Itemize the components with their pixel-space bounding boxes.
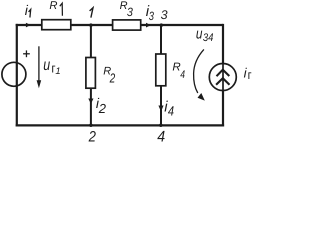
svg-text:u: u <box>43 57 50 74</box>
node 4 dot <box>159 123 163 127</box>
resistor R1 <box>42 20 71 30</box>
voltage arrow u34 curved <box>194 49 205 100</box>
svg-text:2: 2 <box>109 71 116 86</box>
wire left <box>16 24 18 127</box>
svg-text:R: R <box>49 0 57 12</box>
wire top <box>16 24 223 26</box>
svg-text:2: 2 <box>88 129 97 146</box>
node 1 dot <box>89 23 93 27</box>
label node 1 <box>90 8 93 18</box>
svg-text:4: 4 <box>180 69 185 81</box>
current arrow i2 <box>88 99 93 104</box>
node 3 dot <box>160 23 164 27</box>
wire branch R2 <box>90 25 92 125</box>
svg-text:4: 4 <box>168 104 174 119</box>
svg-text:3: 3 <box>161 8 168 22</box>
wire right <box>222 24 224 127</box>
resistor R4 <box>156 54 166 86</box>
svg-text:3: 3 <box>149 9 154 23</box>
current source shaft <box>222 64 224 91</box>
current source circle <box>209 64 236 91</box>
svg-text:1: 1 <box>55 66 60 77</box>
voltage arrow u_g1 <box>37 46 42 88</box>
node 2 dot <box>89 123 93 127</box>
resistor R2 <box>86 58 96 89</box>
svg-text:34: 34 <box>203 32 214 44</box>
svg-text:г: г <box>248 68 252 82</box>
wire bottom <box>16 124 224 126</box>
svg-text:2: 2 <box>98 101 107 116</box>
current source chevrons <box>216 70 229 85</box>
wire branch R4 <box>160 25 162 125</box>
resistor R3 <box>113 20 141 30</box>
voltage source circle <box>2 62 26 86</box>
svg-text:3: 3 <box>127 5 133 19</box>
current arrow i3 <box>146 23 151 28</box>
current arrow i4 <box>158 106 163 112</box>
current arrow i1 <box>26 23 31 28</box>
svg-text:4: 4 <box>157 129 165 146</box>
plus sign <box>23 50 30 57</box>
